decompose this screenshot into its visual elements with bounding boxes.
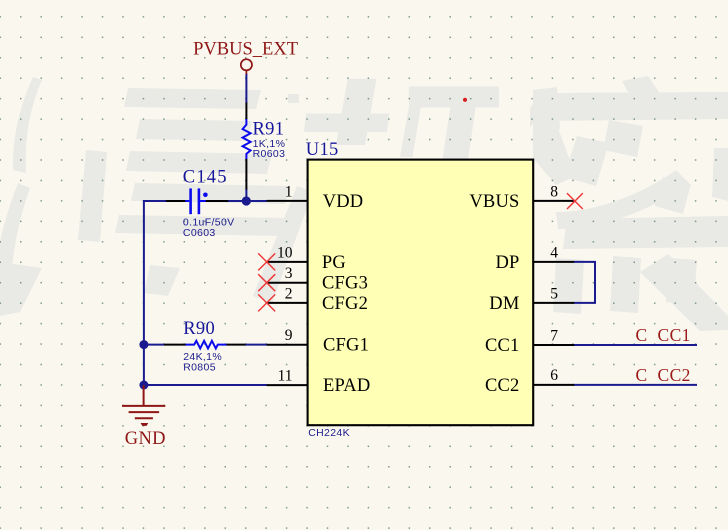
svg-text:CFG3: CFG3 [322, 274, 368, 294]
svg-text:DM: DM [489, 294, 519, 314]
svg-text:VBUS: VBUS [469, 192, 519, 212]
svg-text:6: 6 [550, 367, 558, 384]
svg-text:11: 11 [278, 368, 293, 385]
svg-text:PG: PG [322, 253, 346, 273]
svg-text:10: 10 [277, 244, 293, 261]
svg-text:8: 8 [550, 183, 558, 200]
svg-text:EPAD: EPAD [323, 376, 370, 396]
svg-text:CFG2: CFG2 [322, 294, 368, 314]
svg-text:VDD: VDD [323, 192, 364, 212]
svg-text:PVBUS_EXT: PVBUS_EXT [193, 40, 298, 60]
svg-text:CC2: CC2 [658, 365, 691, 385]
svg-text:1: 1 [285, 183, 293, 200]
svg-text:3: 3 [285, 265, 293, 282]
svg-text:CH224K: CH224K [308, 427, 350, 439]
svg-text:2: 2 [285, 285, 293, 302]
svg-text:5: 5 [550, 285, 558, 302]
svg-text:CC1: CC1 [485, 336, 520, 356]
svg-text:DP: DP [495, 253, 519, 273]
svg-text:4: 4 [550, 244, 558, 261]
svg-text:R0805: R0805 [183, 361, 216, 373]
svg-text:C0603: C0603 [183, 227, 216, 239]
svg-text:C: C [636, 325, 648, 345]
svg-text:R0603: R0603 [253, 148, 286, 160]
svg-text:C: C [636, 365, 648, 385]
svg-text:9: 9 [285, 327, 293, 344]
svg-text:CC1: CC1 [658, 325, 691, 345]
svg-text:U15: U15 [306, 140, 339, 160]
svg-text:CC2: CC2 [485, 376, 520, 396]
svg-text:7: 7 [550, 327, 558, 344]
svg-text:C145: C145 [183, 168, 228, 188]
svg-text:CFG1: CFG1 [323, 336, 369, 356]
svg-text:R91: R91 [253, 120, 285, 140]
svg-text:R90: R90 [183, 319, 215, 339]
svg-text:GND: GND [125, 429, 166, 449]
